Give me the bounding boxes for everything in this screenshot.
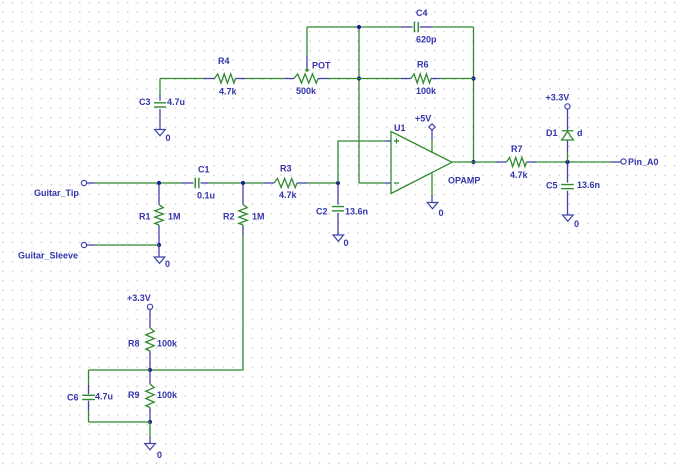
wire bbox=[88, 410, 90, 422]
wire bbox=[150, 235, 243, 370]
svg-text:0.1u: 0.1u bbox=[197, 191, 215, 201]
svg-text:POT: POT bbox=[312, 61, 331, 71]
ground bbox=[154, 257, 165, 263]
wire bbox=[160, 78, 204, 80]
node junction bbox=[241, 181, 245, 185]
capacitor C6 bbox=[88, 385, 90, 394]
resistor R7 bbox=[496, 161, 507, 163]
terminal Guitar_Sleeve bbox=[81, 242, 86, 247]
node junction bbox=[565, 160, 569, 164]
power +5V bbox=[429, 124, 435, 130]
wire bbox=[209, 182, 265, 184]
svg-text:D1: D1 bbox=[546, 128, 558, 138]
resistor R2 bbox=[242, 184, 244, 205]
svg-text:U1: U1 bbox=[394, 123, 406, 133]
wire bbox=[431, 140, 433, 153]
terminal Guitar_Tip bbox=[81, 180, 86, 185]
svg-text:+5V: +5V bbox=[415, 114, 431, 124]
svg-text:1M: 1M bbox=[252, 212, 265, 222]
wire bbox=[359, 78, 401, 80]
svg-text:4.7u: 4.7u bbox=[95, 392, 113, 402]
power +3.3V bbox=[565, 104, 570, 109]
svg-text:500k: 500k bbox=[296, 86, 317, 96]
wire bbox=[567, 152, 569, 162]
resistor R8 bbox=[149, 309, 151, 327]
wire bbox=[158, 245, 160, 257]
ground bbox=[333, 235, 344, 241]
svg-text:OPAMP: OPAMP bbox=[448, 176, 480, 186]
svg-text:13.6n: 13.6n bbox=[345, 207, 368, 217]
node junction bbox=[148, 420, 152, 424]
svg-text:R6: R6 bbox=[417, 60, 429, 70]
wire bbox=[441, 78, 474, 80]
capacitor C1 bbox=[182, 182, 194, 184]
wire bbox=[431, 195, 433, 202]
resistor R6 bbox=[401, 78, 411, 80]
wire bbox=[89, 369, 151, 371]
power +3.3V bbox=[147, 304, 152, 309]
wire bbox=[473, 27, 475, 162]
svg-text:0: 0 bbox=[574, 219, 579, 229]
resistor R1 bbox=[158, 184, 160, 205]
ground bbox=[145, 444, 156, 450]
svg-text:R3: R3 bbox=[280, 164, 292, 174]
diode D1 bbox=[567, 109, 569, 130]
terminal Pin_A0 bbox=[611, 161, 621, 163]
resistor R9 bbox=[149, 370, 151, 384]
svg-text:4.7u: 4.7u bbox=[167, 97, 185, 107]
svg-text:R7: R7 bbox=[511, 144, 523, 154]
svg-text:100k: 100k bbox=[157, 390, 178, 400]
svg-text:R8: R8 bbox=[128, 339, 140, 349]
wire bbox=[328, 78, 359, 80]
svg-text:0: 0 bbox=[157, 450, 162, 460]
svg-text:620p: 620p bbox=[416, 35, 437, 45]
wire bbox=[149, 436, 151, 443]
svg-text:C6: C6 bbox=[67, 393, 79, 403]
wire bbox=[338, 141, 385, 183]
node junction bbox=[157, 181, 161, 185]
wire bbox=[432, 26, 474, 28]
node junction bbox=[357, 76, 361, 80]
svg-text:4.7k: 4.7k bbox=[279, 190, 298, 200]
wire bbox=[431, 174, 433, 196]
svg-text:100k: 100k bbox=[416, 86, 437, 96]
svg-text:0: 0 bbox=[344, 238, 349, 248]
svg-text:C3: C3 bbox=[139, 97, 151, 107]
op-amp U1 bbox=[391, 132, 452, 194]
svg-text:1M: 1M bbox=[168, 212, 181, 222]
wire bbox=[307, 26, 401, 28]
capacitor C5 bbox=[567, 163, 569, 183]
capacitor C2 bbox=[337, 184, 339, 205]
node junction bbox=[336, 181, 340, 185]
svg-text:+3.3V: +3.3V bbox=[546, 93, 570, 103]
wire bbox=[307, 182, 338, 184]
wire bbox=[149, 422, 151, 436]
svg-text:C2: C2 bbox=[316, 207, 328, 217]
svg-text:R1: R1 bbox=[139, 212, 151, 222]
wire bbox=[306, 27, 308, 56]
svg-text:4.7k: 4.7k bbox=[219, 87, 238, 97]
potentiometer POT bbox=[284, 78, 294, 80]
svg-text:100k: 100k bbox=[157, 339, 178, 349]
wire bbox=[89, 421, 151, 423]
svg-text:13.6n: 13.6n bbox=[577, 180, 600, 190]
svg-text:C1: C1 bbox=[198, 165, 210, 175]
wire bbox=[359, 182, 385, 184]
ground bbox=[155, 130, 166, 136]
svg-text:Guitar_Sleeve: Guitar_Sleeve bbox=[18, 251, 78, 261]
wire bbox=[95, 244, 159, 246]
node junction bbox=[357, 25, 361, 29]
svg-text:0: 0 bbox=[165, 259, 170, 269]
node junction bbox=[157, 243, 161, 247]
capacitor C4 bbox=[401, 26, 413, 28]
ground bbox=[427, 203, 438, 209]
node junction bbox=[471, 160, 475, 164]
svg-text:4.7k: 4.7k bbox=[510, 170, 529, 180]
ground bbox=[563, 215, 574, 221]
resistor R4 bbox=[204, 78, 215, 80]
wire bbox=[358, 27, 360, 183]
svg-text:Guitar_Tip: Guitar_Tip bbox=[34, 188, 79, 198]
node junction bbox=[471, 76, 475, 80]
svg-text:0: 0 bbox=[166, 133, 171, 143]
resistor R3 bbox=[264, 182, 274, 184]
wire bbox=[245, 78, 284, 80]
node junction bbox=[148, 368, 152, 372]
svg-text:d: d bbox=[577, 128, 583, 138]
wire bbox=[159, 79, 161, 96]
svg-text:C5: C5 bbox=[546, 181, 558, 191]
wire bbox=[95, 182, 182, 184]
wire bbox=[452, 161, 496, 163]
svg-text:+3.3V: +3.3V bbox=[127, 293, 151, 303]
svg-text:Pin_A0: Pin_A0 bbox=[628, 157, 659, 167]
svg-text:R9: R9 bbox=[128, 390, 140, 400]
svg-text:0: 0 bbox=[439, 208, 444, 218]
svg-text:R2: R2 bbox=[223, 212, 235, 222]
svg-text:R4: R4 bbox=[218, 56, 230, 66]
capacitor C3 bbox=[159, 95, 161, 101]
svg-text:C4: C4 bbox=[416, 8, 428, 18]
wire bbox=[536, 161, 611, 163]
wire bbox=[88, 370, 90, 385]
